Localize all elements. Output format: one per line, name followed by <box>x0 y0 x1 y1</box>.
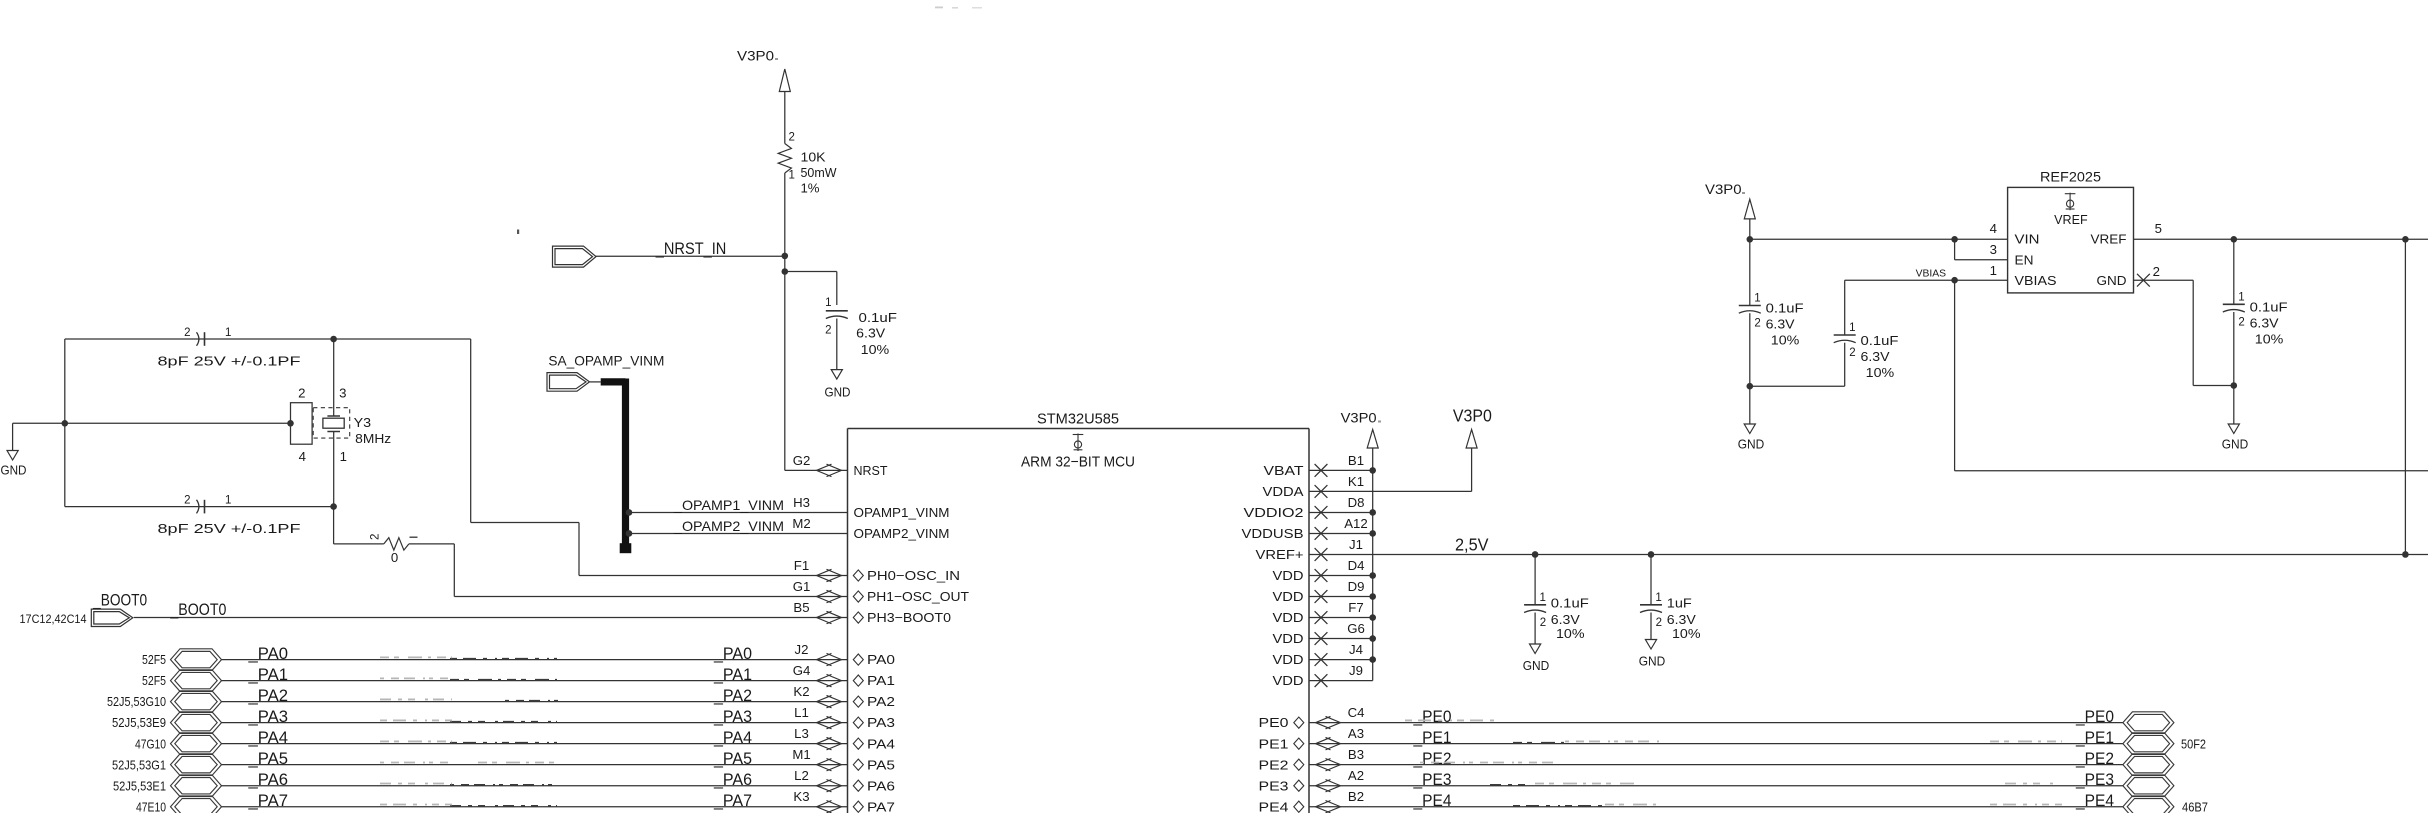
svg-text:F7: F7 <box>1348 600 1363 615</box>
off-page connector PA5 (52J5,53G1) <box>112 754 222 776</box>
MCU pin F7 VDD <box>1273 600 1364 625</box>
svg-text:L1: L1 <box>794 705 809 720</box>
REF2025 pin 2 GND <box>2097 264 2160 288</box>
svg-text:PE4: PE4 <box>1259 799 1289 813</box>
label VREF (REF2025) <box>2054 212 2088 227</box>
svg-text:2: 2 <box>184 495 190 507</box>
svg-text:10%: 10% <box>1672 626 1701 641</box>
resistor 0 ohm <box>370 534 418 565</box>
svg-text:2: 2 <box>1540 617 1546 629</box>
net label _OPAMP2_VINM <box>673 518 784 534</box>
svg-text:52J5,53G10: 52J5,53G10 <box>107 694 166 709</box>
svg-text:GND: GND <box>1523 658 1550 673</box>
svg-text:PA7: PA7 <box>867 799 895 813</box>
svg-text:50mW: 50mW <box>801 165 838 180</box>
wire 2.5V cap2 drop <box>1650 554 1652 604</box>
junction VDD bus <box>1369 509 1376 516</box>
wire crystal pin1 to resistor <box>334 507 384 544</box>
MCU pin J1 VREF+ <box>1256 537 1363 562</box>
svg-text:8pF 25V +/-0.1PF: 8pF 25V +/-0.1PF <box>158 521 301 536</box>
ghost text PA4 <box>380 741 557 742</box>
svg-text:PA3: PA3 <box>867 715 895 730</box>
MCU pin K1 VDDA <box>1263 474 1365 499</box>
svg-text:2: 2 <box>825 325 831 337</box>
svg-text:PE2: PE2 <box>1259 757 1289 772</box>
wire to NRST bypass capacitor <box>785 272 837 306</box>
wire NRST_IN flag to node <box>595 255 785 257</box>
off-page connector PA1 (52F5) <box>142 670 222 692</box>
net label _PA3 (left) <box>247 708 288 726</box>
wire PA0 to MCU <box>222 659 848 661</box>
svg-text:_PA2: _PA2 <box>713 687 752 705</box>
svg-text:G4: G4 <box>793 663 811 678</box>
svg-text:2: 2 <box>2153 264 2160 279</box>
svg-text:46B7: 46B7 <box>2182 799 2208 813</box>
junction VREF cap gnd node <box>2231 382 2238 389</box>
svg-text:PH1−OSC_OUT: PH1−OSC_OUT <box>867 589 969 604</box>
power symbol V3P0 arrow (VDDA) <box>1466 430 1477 492</box>
off-page connector PA2 (52J5,53G10) <box>107 691 222 713</box>
MCU pin M2 OPAMP2_VINM <box>792 516 949 541</box>
svg-text:_BOOT0: _BOOT0 <box>170 601 227 619</box>
ghost text PE4 <box>1513 805 2062 806</box>
svg-text:VDDUSB: VDDUSB <box>1242 526 1304 541</box>
net label _NRST_IN <box>655 240 726 258</box>
wire crystal bottom rail <box>65 506 334 508</box>
svg-text:8MHz: 8MHz <box>355 431 391 446</box>
svg-text:D8: D8 <box>1348 495 1365 510</box>
net label _PE0 (right) <box>2075 708 2114 726</box>
svg-text:PA6: PA6 <box>867 778 895 793</box>
MCU U? STM32U585 box <box>848 410 1310 813</box>
svg-text:GND: GND <box>1738 437 1765 452</box>
svg-text:F1: F1 <box>794 558 809 573</box>
net label _PA0 (left) <box>247 645 288 663</box>
ghost text PE0 <box>1405 719 1500 721</box>
MCU pin J4 VDD <box>1273 642 1363 667</box>
wire PA6 to MCU <box>222 785 848 787</box>
svg-text:STM32U585: STM32U585 <box>1037 410 1119 427</box>
svg-text:6.3V: 6.3V <box>1551 612 1580 627</box>
label ARM 32-BIT MCU <box>1021 453 1135 470</box>
wire PE2 to off-page connector <box>1309 764 2123 766</box>
net label _BOOT0 (flag) <box>92 591 147 609</box>
wire to crystal GND <box>13 423 65 450</box>
capacitor 0.1uF 6.3V 10% (NRST) <box>825 297 897 370</box>
svg-text:B2: B2 <box>1348 789 1364 804</box>
svg-text:VDD: VDD <box>1273 589 1304 604</box>
svg-text:B5: B5 <box>793 600 809 615</box>
junction GND stub <box>62 420 69 427</box>
MCU pin G1 PH1−OSC_OUT <box>793 579 969 604</box>
crystal Y3 8MHz case <box>291 385 313 464</box>
wire VBIAS cap drop <box>1844 280 1846 335</box>
ghost text PA1 <box>380 678 557 679</box>
REF2025 pin 4 VIN <box>1990 221 2040 246</box>
svg-text:2,5V: 2,5V <box>1455 534 1489 554</box>
svg-text:1: 1 <box>225 327 231 339</box>
off-page connector PA3 (52J5,53E9) <box>112 712 222 734</box>
ghost text PA5 <box>380 761 556 763</box>
wire V3P0 cap drop (REF2025) <box>1749 239 1751 305</box>
svg-text:OPAMP2_VINM: OPAMP2_VINM <box>854 526 950 541</box>
MCU pin B3 PE2 <box>1259 747 1365 772</box>
svg-text:_PA0: _PA0 <box>247 645 288 663</box>
off-page connector PA6 (52J5,53E1) <box>113 775 222 797</box>
net label _PE0 (left) <box>1413 708 1452 726</box>
wire 2.5V cap1 drop <box>1534 554 1536 604</box>
MCU pin D9 VDD <box>1273 579 1365 604</box>
junction VDD bus <box>1369 572 1376 579</box>
svg-text:VBIAS: VBIAS <box>1916 268 1947 279</box>
net label SA_OPAMP_VINM <box>548 352 664 368</box>
svg-text:2: 2 <box>370 534 382 540</box>
svg-text:PH3−BOOT0: PH3−BOOT0 <box>867 610 951 625</box>
net label V3P0 (VDDA) <box>1453 405 1492 425</box>
svg-text:0.1uF: 0.1uF <box>1861 333 1899 348</box>
junction crystal pin1 node <box>330 503 337 510</box>
svg-text:_NRST_IN: _NRST_IN <box>655 240 726 258</box>
svg-text:A12: A12 <box>1344 516 1367 531</box>
svg-text:1: 1 <box>1754 293 1760 305</box>
net label V3P0 (REF2025) <box>1705 182 1745 197</box>
svg-text:VREF: VREF <box>2054 212 2088 227</box>
svg-text:10%: 10% <box>2255 332 2284 347</box>
svg-text:_PA7: _PA7 <box>247 792 288 810</box>
svg-text:52J5,53G1: 52J5,53G1 <box>112 757 166 772</box>
MCU pin L2 PA6 <box>794 768 895 793</box>
svg-text:0.1uF: 0.1uF <box>1766 301 1804 316</box>
svg-text:VDD: VDD <box>1273 673 1304 688</box>
svg-text:VBAT: VBAT <box>1264 463 1304 478</box>
wire crystal pin3 to PH0-OSC_IN <box>334 339 848 576</box>
svg-text:VBIAS: VBIAS <box>2015 273 2057 288</box>
capacitor 8pF 25V +/-0.1PF (top) <box>158 327 301 369</box>
svg-text:PA1: PA1 <box>867 673 895 688</box>
junction VIN/EN tie <box>1951 236 1958 243</box>
svg-text:6.3V: 6.3V <box>1861 349 1890 364</box>
sheet ref 17C12,42C14 <box>20 612 87 626</box>
svg-text:1: 1 <box>1990 263 1997 278</box>
MCU pin M1 PA5 <box>792 747 895 772</box>
svg-text:0.1uF: 0.1uF <box>2250 300 2288 315</box>
svg-text:3: 3 <box>339 385 346 400</box>
svg-text:1uF: 1uF <box>1667 596 1692 611</box>
off-page connector PA4 (47G10) <box>135 733 222 755</box>
svg-text:10K: 10K <box>801 150 826 165</box>
ghost text PE3 <box>1490 784 2056 785</box>
MCU pin K2 PA2 <box>793 684 895 709</box>
svg-text:GND: GND <box>2222 437 2249 452</box>
svg-text:_PA2: _PA2 <box>247 687 288 705</box>
MCU pin J9 VDD <box>1273 663 1363 688</box>
net label _PE4 (left) <box>1413 792 1452 810</box>
svg-text:G6: G6 <box>1347 621 1365 636</box>
flag NRST_IN <box>553 246 597 267</box>
svg-text:1: 1 <box>225 495 231 507</box>
svg-text:52J5,53E1: 52J5,53E1 <box>113 778 166 793</box>
off-page connector PE2 <box>2123 754 2174 776</box>
off-page connector PA0 (52F5) <box>142 649 222 671</box>
svg-text:10%: 10% <box>1866 365 1895 380</box>
junction VDD bus <box>1369 614 1376 621</box>
svg-text:J1: J1 <box>1349 537 1363 552</box>
MCU pin B1 VBAT <box>1264 453 1365 478</box>
ghost text PE2 <box>1420 761 1560 763</box>
MCU pin G4 PA1 <box>793 663 895 688</box>
svg-text:L2: L2 <box>794 768 809 783</box>
junction NRST_IN node <box>782 253 789 260</box>
wire VREF output <box>2134 238 2428 240</box>
junction NRST cap branch <box>782 268 789 275</box>
junction OPAMP1_VINM tap <box>626 509 633 516</box>
net label _PE3 (right) <box>2075 771 2114 789</box>
svg-text:GND: GND <box>2097 273 2127 288</box>
svg-text:_PE2: _PE2 <box>1413 750 1452 768</box>
off-page connector PE1 <box>2123 733 2206 755</box>
net label _PA4 (right) <box>713 729 752 747</box>
crystal Y3 8MHz element <box>313 339 391 507</box>
MCU pin C4 PE0 <box>1259 705 1365 730</box>
svg-text:G2: G2 <box>793 453 811 468</box>
junction 2.5V cap2 tap <box>1648 551 1655 558</box>
svg-text:VDD: VDD <box>1273 631 1304 646</box>
wire 2.5V rail (VREF+) <box>1309 553 2428 555</box>
svg-text:_PA1: _PA1 <box>247 666 288 684</box>
capacitor 8pF 25V +/-0.1PF (bottom) <box>158 495 301 536</box>
net label _PA6 (right) <box>713 771 752 789</box>
net label _PA2 (left) <box>247 687 288 705</box>
svg-text:VDDA: VDDA <box>1263 484 1304 499</box>
net label _PE2 (right) <box>2075 750 2114 768</box>
wire caps to crystal case <box>65 422 291 424</box>
ground GND (VREF+ cap1) <box>1523 644 1550 673</box>
speck artifacts <box>517 7 982 235</box>
net label _PE4 (right) <box>2075 792 2114 810</box>
wire PA4 to MCU <box>222 743 848 745</box>
junction VBIAS node <box>1951 277 1958 284</box>
svg-text:C4: C4 <box>1348 705 1365 720</box>
svg-text:VIN: VIN <box>2015 232 2040 247</box>
svg-text:PA4: PA4 <box>867 736 895 751</box>
svg-text:_PA5: _PA5 <box>247 750 288 768</box>
svg-text:PA2: PA2 <box>867 694 895 709</box>
svg-text:PH0−OSC_IN: PH0−OSC_IN <box>867 568 960 583</box>
svg-text:2: 2 <box>1754 318 1760 330</box>
ghost text PA7 <box>380 805 557 806</box>
junction 2.5V cap1 tap <box>1532 551 1539 558</box>
MCU pin D4 VDD <box>1273 558 1365 583</box>
svg-text:_PA5: _PA5 <box>713 750 752 768</box>
ground GND (NRST cap) <box>825 370 851 400</box>
wire OPAMP1_VINM to MCU <box>629 511 848 513</box>
svg-text:_PE4: _PE4 <box>2075 792 2114 810</box>
wire BOOT0 to MCU PH3 <box>134 617 848 619</box>
svg-text:17C12,42C14: 17C12,42C14 <box>20 612 87 626</box>
MCU pin A3 PE1 <box>1259 726 1365 751</box>
wire PE1 to off-page connector <box>1309 743 2123 745</box>
svg-text:_PA1: _PA1 <box>713 666 752 684</box>
svg-text:VDD: VDD <box>1273 568 1304 583</box>
net label _PE1 (left) <box>1413 729 1452 747</box>
net label 2,5V <box>1455 534 1489 554</box>
junction VDD bus <box>1369 635 1376 642</box>
svg-text:K3: K3 <box>793 789 809 804</box>
svg-text:PE1: PE1 <box>1259 736 1289 751</box>
net label _PA2 (right) <box>713 687 752 705</box>
wire VDD bus vertical <box>1372 470 1374 680</box>
net label _PA1 (left) <box>247 666 288 684</box>
junction REF2025 gnd caps <box>1747 383 1754 390</box>
power symbol V3P0 arrow (VDD bus) <box>1367 430 1378 471</box>
svg-text:1: 1 <box>340 449 347 464</box>
wire 0 ohm to PH1-OSC_OUT <box>409 544 848 597</box>
svg-text:Y3: Y3 <box>354 415 372 430</box>
wire VBIAS net <box>1845 280 2428 471</box>
svg-text:H3: H3 <box>793 495 810 510</box>
net label _OPAMP1_VINM <box>673 497 784 513</box>
off-page connector PA7 (47E10) <box>136 796 222 813</box>
net label _PE3 (left) <box>1413 771 1452 789</box>
wire PA1 to MCU <box>222 680 848 682</box>
MCU pin J2 PA0 <box>795 642 895 667</box>
REF2025 pin 1 VBIAS <box>1990 263 2057 288</box>
wire VBIAS cap to gnd node <box>1750 385 1845 387</box>
ghost text PA0 <box>380 657 557 658</box>
junction VDD bus <box>1369 467 1376 474</box>
svg-text:VDDIO2: VDDIO2 <box>1244 505 1304 520</box>
off-page connector PE4 <box>2123 796 2208 813</box>
svg-text:5: 5 <box>2155 221 2162 236</box>
off-page connector PE3 <box>2123 775 2174 797</box>
svg-text:_PA3: _PA3 <box>247 708 288 726</box>
svg-text:A3: A3 <box>1348 726 1364 741</box>
svg-text:NRST: NRST <box>854 463 888 478</box>
capacitor 0.1uF 6.3V 10% (VBIAS) <box>1834 322 1899 386</box>
junction VDD bus <box>1369 593 1376 600</box>
svg-text:_PE3: _PE3 <box>2075 771 2114 789</box>
net label V3P0 (VDD bus) <box>1341 411 1381 426</box>
ghost text PA6 <box>380 784 557 785</box>
svg-text:52J5,53E9: 52J5,53E9 <box>112 715 166 730</box>
junction 2.5V rail right <box>2402 551 2409 558</box>
MCU pin G6 VDD <box>1273 621 1365 646</box>
MCU pin L3 PA4 <box>794 726 895 751</box>
svg-text:M2: M2 <box>792 516 810 531</box>
svg-text:4: 4 <box>299 449 306 464</box>
capacitor 0.1uF 6.3V 10% (VREF out) <box>2223 291 2288 385</box>
junction VDD bus <box>1369 530 1376 537</box>
power reference glyph (MCU) <box>1073 434 1084 452</box>
ground GND (VREF+ cap2) <box>1639 640 1666 669</box>
wire PA2 to MCU <box>222 701 848 703</box>
svg-text:0.1uF: 0.1uF <box>1551 596 1589 611</box>
svg-text:M1: M1 <box>792 747 810 762</box>
svg-text:1%: 1% <box>801 181 820 196</box>
net label _PA5 (right) <box>713 750 752 768</box>
wire NRST node down to MCU NRST pin <box>785 256 848 471</box>
svg-text:0: 0 <box>391 550 398 565</box>
svg-text:2: 2 <box>298 385 305 400</box>
svg-text:_PE3: _PE3 <box>1413 771 1452 789</box>
junction VDD bus <box>1369 656 1376 663</box>
svg-text:50F2: 50F2 <box>2181 736 2206 751</box>
ground GND (crystal) <box>1 451 27 478</box>
svg-text:PE3: PE3 <box>1259 778 1289 793</box>
svg-text:2: 2 <box>1849 347 1855 359</box>
MCU pin D8 VDDIO2 <box>1244 495 1365 520</box>
svg-text:VREF+: VREF+ <box>1256 547 1304 562</box>
svg-text:6.3V: 6.3V <box>2250 316 2279 331</box>
svg-text:_OPAMP2_VINM: _OPAMP2_VINM <box>673 518 784 534</box>
power symbol V3P0 arrow (REF2025) <box>1744 199 1755 239</box>
svg-text:2: 2 <box>184 327 190 339</box>
svg-text:G1: G1 <box>793 579 811 594</box>
wire PA7 to MCU <box>222 806 848 808</box>
resistor 10K 50mW 1% (NRST pull-up) <box>778 132 837 196</box>
junction crystal case pin <box>287 420 294 427</box>
ground GND (VREF out cap) <box>2222 386 2249 452</box>
wire VDD pin stubs <box>1309 470 1373 680</box>
svg-text:47G10: 47G10 <box>135 736 166 751</box>
junction VREF to 2.5V branch <box>2402 236 2409 243</box>
net label _PE2 (left) <box>1413 750 1452 768</box>
wire left cap bus <box>64 339 66 507</box>
svg-text:GND: GND <box>1 463 27 478</box>
net label _PA4 (left) <box>247 729 288 747</box>
svg-text:OPAMP1_VINM: OPAMP1_VINM <box>854 505 950 520</box>
net label _PA6 (left) <box>247 771 288 789</box>
svg-text:1: 1 <box>789 170 795 182</box>
off-page connector PE0 <box>2123 712 2174 734</box>
wire VREF cap drop <box>2233 239 2235 304</box>
net label VBIAS <box>1916 268 1947 279</box>
svg-text:_PE0: _PE0 <box>2075 708 2114 726</box>
svg-text:6.3V: 6.3V <box>856 325 885 340</box>
svg-text:_PE4: _PE4 <box>1413 792 1452 810</box>
wire OPAMP2_VINM to MCU <box>629 532 848 534</box>
svg-text:PE0: PE0 <box>1259 715 1289 730</box>
svg-text:_OPAMP1_VINM: _OPAMP1_VINM <box>673 497 784 513</box>
power reference glyph (REF2025) <box>2065 193 2076 211</box>
wire crystal top rail <box>65 338 334 340</box>
capacitor 0.1uF 6.3V 10% (REF2025 VIN) <box>1739 293 1804 387</box>
ground GND (REF2025 VIN cap) <box>1738 386 1765 451</box>
svg-text:1: 1 <box>1849 322 1855 334</box>
svg-text:_PA4: _PA4 <box>713 729 752 747</box>
svg-text:_PA0: _PA0 <box>713 645 752 663</box>
wire PA5 to MCU <box>222 764 848 766</box>
svg-text:J2: J2 <box>795 642 809 657</box>
no-connect X (REF2025 GND pin) <box>2137 274 2150 287</box>
wire PE0 to off-page connector <box>1309 722 2123 724</box>
net label _PA5 (left) <box>247 750 288 768</box>
svg-text:1: 1 <box>825 297 831 309</box>
svg-text:PA5: PA5 <box>867 757 895 772</box>
svg-text:PA0: PA0 <box>867 652 895 667</box>
svg-text:D9: D9 <box>1348 579 1365 594</box>
MCU pin A2 PE3 <box>1259 768 1365 793</box>
svg-text:V3P0: V3P0 <box>1341 411 1377 426</box>
flag BOOT0 <box>91 609 133 626</box>
svg-text:B1: B1 <box>1348 453 1364 468</box>
wire PE3 to off-page connector <box>1309 785 2123 787</box>
svg-text:D4: D4 <box>1348 558 1365 573</box>
wire EN tie <box>1955 239 2008 259</box>
net label _PA7 (right) <box>713 792 752 810</box>
MCU pin H3 OPAMP1_VINM <box>793 495 949 520</box>
svg-text:0.1uF: 0.1uF <box>859 310 898 325</box>
